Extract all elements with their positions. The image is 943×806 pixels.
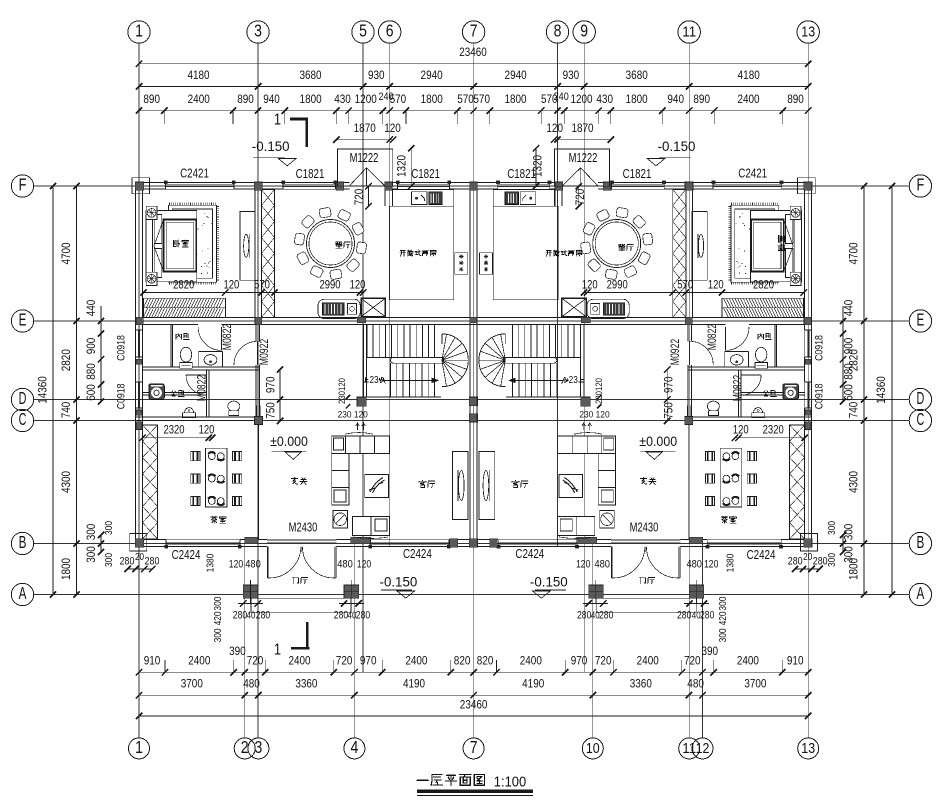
wall F top exterior [136, 181, 166, 183]
svg-text:2820: 2820 [173, 279, 194, 292]
svg-text:300: 300 [842, 523, 856, 540]
svg-text:2400: 2400 [288, 654, 310, 668]
svg-text:2400: 2400 [188, 92, 210, 106]
svg-text:1800: 1800 [421, 92, 443, 106]
bath wall inner vertical 2 [205, 370, 207, 417]
svg-text:480: 480 [594, 559, 610, 571]
svg-text:280: 280 [677, 610, 691, 622]
nightstand with plant lower [146, 272, 157, 285]
svg-text:480: 480 [243, 677, 260, 691]
svg-text:390: 390 [229, 644, 246, 658]
bath wall inner vertical 1 [170, 325, 172, 367]
svg-text:7: 7 [470, 21, 478, 41]
svg-text:B: B [917, 532, 925, 552]
svg-text:-0.150: -0.150 [658, 138, 696, 154]
svg-text:570: 570 [457, 92, 474, 106]
bath sink sub-room [198, 352, 200, 367]
dim 720 kitchen stub right [578, 186, 580, 206]
right dimension column overall 14360 [891, 186, 893, 595]
bath south wall [143, 391, 207, 393]
svg-text:M2430: M2430 [289, 520, 318, 534]
svg-text:±0.000: ±0.000 [639, 433, 677, 449]
tea room X-brace wall strip [143, 425, 158, 539]
svg-text:E: E [917, 310, 925, 330]
stair side wall [362, 325, 364, 398]
svg-text:D: D [917, 388, 925, 408]
svg-text:440: 440 [84, 299, 98, 316]
svg-text:430: 430 [334, 92, 351, 106]
tea room chairs [191, 452, 200, 461]
svg-text:2: 2 [241, 737, 249, 757]
svg-text:2400: 2400 [188, 654, 210, 668]
svg-text:C2424: C2424 [515, 547, 544, 561]
stair winder fan [442, 334, 468, 387]
svg-text:740: 740 [847, 401, 861, 418]
svg-text:300: 300 [718, 596, 729, 610]
svg-text:23: 23 [569, 375, 578, 386]
svg-text:750: 750 [264, 402, 278, 419]
svg-text:13: 13 [801, 740, 815, 757]
svg-text:23: 23 [369, 375, 378, 386]
svg-text:E: E [19, 310, 27, 330]
svg-text:2320: 2320 [763, 423, 784, 436]
svg-text:1870: 1870 [354, 121, 376, 135]
furniture group left unit [144, 190, 469, 539]
svg-text:280: 280 [120, 556, 135, 568]
svg-text:5: 5 [359, 21, 367, 41]
fridge [455, 253, 468, 274]
axis number circles bottom [129, 738, 150, 759]
svg-text:120: 120 [733, 423, 749, 436]
svg-text:1200: 1200 [355, 92, 377, 106]
svg-text:A: A [917, 583, 925, 603]
room labels CJK [174, 240, 189, 247]
stair step count label left [364, 377, 369, 382]
svg-text:300: 300 [104, 521, 115, 535]
svg-text:C: C [19, 409, 27, 429]
right dimension column axis spans [863, 186, 865, 595]
svg-text:C1821: C1821 [623, 167, 652, 181]
svg-text:2820: 2820 [59, 349, 73, 371]
corner box bottom-left [130, 534, 147, 552]
svg-text:280: 280 [145, 556, 160, 568]
porch M1222 outline [338, 149, 393, 186]
window C0918 lower on left wall [135, 382, 137, 408]
window C2424 left on B [166, 539, 240, 541]
dim 1320 porch side left [410, 148, 412, 186]
right dimension 280 20 280 [795, 568, 820, 570]
svg-text:440: 440 [842, 299, 856, 316]
svg-text:890: 890 [237, 92, 254, 106]
washing machine [149, 384, 165, 400]
svg-text:970: 970 [264, 376, 278, 393]
stair lower flight treads [390, 363, 392, 397]
svg-text:300: 300 [213, 596, 224, 610]
svg-text:300: 300 [84, 523, 98, 540]
svg-text:C2421: C2421 [738, 167, 767, 181]
svg-text:120: 120 [546, 121, 563, 135]
svg-text:6: 6 [386, 21, 394, 41]
axis letter circles left and right [11, 175, 33, 197]
svg-text:C2424: C2424 [403, 547, 432, 561]
wall C [136, 416, 259, 418]
svg-text:720: 720 [595, 654, 612, 668]
svg-text:M0922: M0922 [669, 339, 682, 365]
toilet inner bath [180, 347, 191, 362]
svg-text:4180: 4180 [738, 68, 760, 82]
svg-text:1380: 1380 [206, 553, 217, 572]
svg-text:970: 970 [571, 654, 588, 668]
svg-text:230120: 230120 [594, 378, 605, 404]
kitchen floor outline [389, 206, 454, 300]
svg-text:2940: 2940 [505, 68, 527, 82]
svg-text:1870: 1870 [571, 121, 593, 135]
svg-text:1: 1 [274, 112, 281, 129]
svg-text:4180: 4180 [187, 68, 209, 82]
svg-text:280: 280 [334, 610, 348, 622]
right dimension 300 300 at B [842, 535, 844, 552]
svg-text:2400: 2400 [737, 92, 759, 106]
stair direction arrow [384, 379, 438, 381]
svg-text:-0.150: -0.150 [530, 574, 568, 590]
svg-text:720: 720 [684, 654, 701, 668]
left dimension chain windows [100, 321, 102, 402]
living room TV cabinet [452, 452, 468, 520]
svg-text:1800: 1800 [300, 92, 322, 106]
svg-text:750: 750 [662, 402, 676, 419]
svg-text:3: 3 [254, 21, 262, 41]
svg-text:970: 970 [662, 376, 676, 393]
svg-text:9: 9 [580, 21, 588, 41]
svg-text:40: 40 [692, 611, 701, 622]
svg-text:M0822: M0822 [196, 375, 209, 401]
svg-text:230 120: 230 120 [579, 410, 609, 421]
svg-text:±0.000: ±0.000 [270, 433, 308, 449]
svg-text:1: 1 [135, 737, 143, 757]
svg-text:1200: 1200 [570, 92, 592, 106]
svg-text:F: F [917, 175, 925, 195]
svg-text:420: 420 [213, 611, 224, 625]
svg-text:880: 880 [842, 363, 856, 380]
svg-text:890: 890 [143, 92, 160, 106]
svg-text:280: 280 [599, 610, 613, 622]
wash basin inner bath [204, 355, 217, 365]
svg-text:1320: 1320 [395, 155, 409, 177]
left dimension 280 20 280 [128, 568, 153, 570]
bottom dimension row segments [139, 694, 808, 696]
svg-text:480: 480 [337, 559, 353, 571]
svg-text:C2421: C2421 [180, 167, 209, 181]
bath mid wall [143, 366, 260, 368]
sofa set living room [332, 436, 390, 454]
title first floor plan [417, 774, 485, 785]
axis number circles top [128, 21, 150, 43]
svg-text:420: 420 [718, 611, 729, 625]
svg-text:23460: 23460 [460, 697, 488, 711]
svg-text:280: 280 [256, 610, 270, 622]
door M0822 to inner bath [221, 327, 223, 351]
dim corridor 970 750 left [279, 370, 281, 421]
svg-text:890: 890 [693, 92, 710, 106]
svg-text:13: 13 [801, 24, 815, 41]
svg-text:2400: 2400 [637, 654, 659, 668]
window C1821 left on F [283, 181, 336, 183]
svg-text:4300: 4300 [847, 471, 861, 493]
svg-text:280: 280 [788, 556, 803, 568]
svg-text:120: 120 [582, 279, 598, 292]
svg-text:14360: 14360 [36, 376, 50, 404]
bottom dimension row total 23460 [139, 715, 808, 717]
wardrobe hatched on wall E [144, 298, 226, 317]
svg-text:11: 11 [682, 24, 696, 41]
svg-text:3680: 3680 [299, 68, 321, 82]
bottom dimension row fine [139, 671, 808, 673]
svg-text:120: 120 [384, 121, 401, 135]
dim row above wall E right [584, 292, 804, 294]
svg-text:570: 570 [254, 279, 270, 292]
svg-text:910: 910 [787, 654, 804, 668]
svg-text:3700: 3700 [744, 677, 766, 691]
svg-text:14360: 14360 [874, 376, 888, 404]
window C2424 right on B [370, 539, 449, 541]
svg-text:480: 480 [687, 677, 704, 691]
svg-text:M0922: M0922 [258, 339, 271, 365]
svg-text:M0822: M0822 [221, 324, 234, 350]
dim row tea room left [143, 437, 213, 439]
svg-text:-0.150: -0.150 [380, 574, 418, 590]
toilet small wc [228, 401, 240, 411]
stair step count label right [579, 377, 584, 382]
svg-text:1: 1 [274, 642, 281, 659]
svg-text:940: 940 [667, 92, 684, 106]
left dimension column axis spans [75, 186, 77, 595]
svg-text:8: 8 [554, 21, 562, 41]
svg-text:2400: 2400 [405, 654, 427, 668]
svg-text:820: 820 [477, 654, 494, 668]
tea room right wall thin [257, 420, 259, 539]
svg-text:2400: 2400 [520, 654, 542, 668]
svg-text:3700: 3700 [181, 677, 203, 691]
svg-text:B: B [19, 532, 27, 552]
right dimension chain windows [842, 321, 844, 402]
top dimension row total 23460 [139, 63, 808, 65]
svg-text:2820: 2820 [753, 279, 774, 292]
svg-text:720: 720 [352, 188, 366, 205]
svg-text:2940: 2940 [421, 68, 443, 82]
svg-text:7: 7 [470, 737, 478, 757]
structural columns [135, 182, 143, 190]
svg-text:1380: 1380 [726, 553, 737, 572]
svg-text:120: 120 [704, 559, 718, 571]
dim row tea room right [735, 437, 805, 439]
dim 1320 porch side right [535, 148, 537, 186]
svg-text:930: 930 [368, 68, 385, 82]
svg-text:970: 970 [360, 654, 377, 668]
svg-text:C: C [917, 409, 925, 429]
svg-text:4300: 4300 [59, 471, 73, 493]
sofa side table [333, 511, 348, 529]
svg-text:M1222: M1222 [569, 151, 598, 165]
svg-text:C0918: C0918 [814, 335, 826, 361]
svg-text:230 120: 230 120 [338, 410, 368, 421]
svg-text:3: 3 [255, 737, 263, 757]
left dimension 300 300 at B [100, 535, 102, 552]
svg-text:280: 280 [700, 610, 714, 622]
svg-text:12: 12 [696, 740, 710, 757]
porch columns [243, 585, 257, 598]
svg-text:390: 390 [702, 644, 719, 658]
svg-text:20: 20 [135, 552, 144, 563]
svg-text:230120: 230120 [337, 378, 348, 404]
center party wall [469, 182, 471, 546]
svg-text:600: 600 [84, 384, 98, 401]
svg-text:280: 280 [233, 610, 247, 622]
svg-text:C0918: C0918 [116, 335, 128, 361]
door M0922 corridor [257, 341, 259, 365]
svg-text:4190: 4190 [403, 677, 425, 691]
top dimension row segments [139, 85, 808, 87]
svg-text:3360: 3360 [295, 677, 317, 691]
dim 720 kitchen stub left [368, 186, 370, 206]
door M0822 to public bath [186, 374, 207, 376]
svg-text:300: 300 [718, 628, 729, 642]
svg-text:600: 600 [842, 384, 856, 401]
dim corridor 970 750 right [666, 370, 668, 421]
svg-text:820: 820 [454, 654, 471, 668]
svg-text:C0918: C0918 [116, 384, 128, 410]
svg-text:1800: 1800 [626, 92, 648, 106]
svg-text:C1821: C1821 [507, 167, 536, 181]
lintel line over bath door opening [198, 317, 221, 319]
svg-text:570: 570 [677, 279, 693, 292]
svg-text:40: 40 [247, 611, 256, 622]
svg-text:2320: 2320 [163, 423, 184, 436]
svg-text:720: 720 [247, 654, 264, 668]
svg-text:3360: 3360 [630, 677, 652, 691]
svg-text:-0.150: -0.150 [252, 138, 290, 154]
svg-text:M1222: M1222 [350, 151, 379, 165]
svg-text:720: 720 [573, 188, 587, 205]
svg-text:A: A [19, 583, 27, 603]
svg-text:2990: 2990 [607, 279, 628, 292]
wall axis3 D-to-C [255, 405, 257, 417]
stair upper flight treads [366, 325, 368, 358]
svg-text:300: 300 [827, 521, 838, 535]
svg-text:480: 480 [245, 559, 261, 571]
nightstand with plant upper [146, 206, 157, 219]
svg-text:4700: 4700 [59, 242, 73, 264]
kitchen top counter with sink and stove [393, 190, 454, 206]
svg-text:940: 940 [263, 92, 280, 106]
dim row above wall E left [144, 292, 364, 294]
axis grid lines horizontal [34, 185, 909, 187]
svg-text:2400: 2400 [737, 654, 759, 668]
svg-text:F: F [19, 175, 27, 195]
svg-text:240: 240 [378, 91, 393, 103]
axis grid lines vertical [138, 43, 140, 738]
bedroom TV cabinet [240, 212, 255, 281]
kitchen stub wall [384, 189, 386, 206]
svg-text:1800: 1800 [59, 558, 73, 580]
svg-text:890: 890 [787, 92, 804, 106]
svg-text:880: 880 [84, 363, 98, 380]
svg-text:300: 300 [104, 553, 115, 567]
svg-text:900: 900 [842, 337, 856, 354]
tea room table [205, 448, 227, 507]
svg-text:1:100: 1:100 [494, 775, 526, 791]
svg-text:1800: 1800 [504, 92, 526, 106]
svg-text:280: 280 [356, 610, 370, 622]
svg-text:120: 120 [576, 559, 590, 571]
svg-text:1: 1 [135, 21, 143, 41]
svg-text:C1821: C1821 [296, 167, 325, 181]
wall B bottom exterior [136, 539, 166, 541]
living room rug with plant [365, 475, 389, 498]
svg-text:23460: 23460 [459, 45, 487, 59]
left exterior wall [135, 182, 137, 330]
svg-text:20: 20 [803, 552, 812, 563]
svg-text:40: 40 [591, 611, 600, 622]
wall E [136, 317, 199, 319]
svg-text:740: 740 [59, 401, 73, 418]
left unit geometry [130, 149, 478, 613]
svg-text:4190: 4190 [522, 677, 544, 691]
window C1821 right on F [398, 181, 450, 183]
right unit mirrored geometry [469, 149, 817, 613]
svg-text:300: 300 [213, 628, 224, 642]
window C2421 on F [166, 181, 235, 183]
svg-text:M2430: M2430 [630, 520, 659, 534]
svg-text:3680: 3680 [626, 68, 648, 82]
svg-text:570: 570 [473, 92, 490, 106]
svg-text:120: 120 [708, 279, 724, 292]
left dimension column overall 14360 [52, 186, 54, 595]
wall axis3 bath section [255, 325, 257, 342]
dining round table with chairs [356, 242, 367, 254]
kitchen island counter [318, 299, 360, 318]
svg-text:10: 10 [586, 740, 600, 757]
svg-text:D: D [19, 388, 27, 408]
svg-text:430: 430 [596, 92, 613, 106]
svg-text:910: 910 [144, 654, 161, 668]
svg-text:300: 300 [84, 546, 98, 563]
svg-text:C1821: C1821 [411, 167, 440, 181]
svg-text:2990: 2990 [319, 279, 340, 292]
porch steps [251, 597, 351, 599]
interior wall axis3 bedroom [254, 189, 256, 317]
entry door M2430 leaves and arcs [266, 547, 268, 578]
svg-text:120: 120 [357, 559, 371, 571]
bed [146, 211, 197, 282]
svg-text:240: 240 [554, 91, 569, 103]
svg-text:M0822: M0822 [732, 375, 745, 401]
svg-text:280: 280 [813, 556, 828, 568]
svg-text:C2424: C2424 [172, 548, 201, 562]
svg-text:300: 300 [827, 553, 838, 567]
top dimension row 1870 [336, 139, 393, 141]
svg-text:280: 280 [577, 610, 591, 622]
svg-text:C0918: C0918 [814, 384, 826, 410]
cabinet strip with X bracing beside axis3 [261, 190, 274, 318]
wash basin public bath [183, 413, 196, 418]
svg-text:930: 930 [563, 68, 580, 82]
svg-text:120: 120 [350, 279, 366, 292]
lintel lines over M2430 opening [267, 539, 336, 541]
svg-text:720: 720 [336, 654, 353, 668]
svg-text:120: 120 [229, 559, 243, 571]
svg-text:120: 120 [199, 423, 215, 436]
svg-text:4: 4 [351, 737, 359, 757]
